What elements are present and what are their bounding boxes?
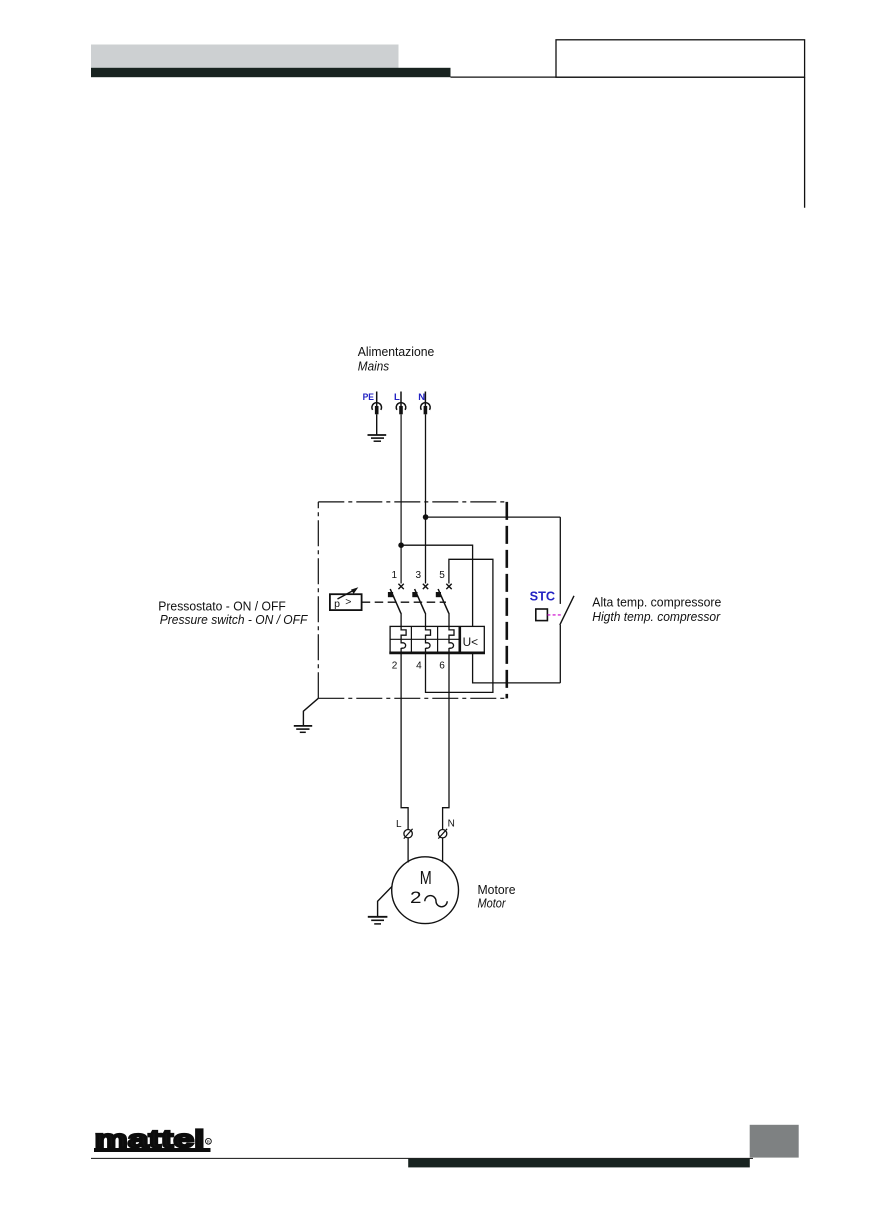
svg-text:2: 2 bbox=[392, 661, 398, 672]
ground motor bbox=[368, 917, 388, 924]
svg-text:3: 3 bbox=[416, 570, 422, 581]
contact pole 1 bbox=[388, 584, 404, 627]
contact pole 5 bbox=[436, 584, 452, 627]
wire N vertical bbox=[425, 414, 427, 583]
node on L wire bbox=[398, 542, 404, 548]
svg-text:N: N bbox=[418, 392, 425, 403]
enclosure ground lead bbox=[303, 698, 318, 725]
svg-text:6: 6 bbox=[439, 661, 445, 672]
STC linkage magenta dashed bbox=[547, 614, 561, 616]
header horizontal rule bbox=[451, 76, 805, 78]
footer dark bar bbox=[408, 1159, 750, 1168]
terminal N bbox=[421, 392, 431, 415]
ground enclosure bbox=[294, 726, 312, 732]
svg-text:4: 4 bbox=[416, 661, 422, 672]
STC thermal contact bbox=[560, 517, 574, 683]
label Alta temp bbox=[592, 596, 721, 625]
svg-text:5: 5 bbox=[439, 570, 445, 581]
motor ground lead bbox=[378, 886, 393, 916]
enclosure dash-dot box bbox=[318, 502, 507, 698]
pressure switch box p> bbox=[330, 587, 362, 610]
ground PE bbox=[368, 435, 387, 441]
terminal PE bbox=[372, 392, 382, 415]
contact pole 3 bbox=[412, 584, 428, 627]
svg-text:STC: STC bbox=[530, 590, 555, 604]
wire terminal2 to motor L bbox=[401, 653, 408, 830]
footer logo mattei bbox=[94, 1126, 211, 1154]
svg-text:Alta temp. compressore: Alta temp. compressore bbox=[592, 596, 721, 610]
node on N wire bbox=[423, 514, 429, 520]
wire terminal6 to motor N bbox=[443, 653, 449, 830]
wire L vertical bbox=[400, 414, 402, 583]
heater element pole 1 bbox=[401, 626, 406, 652]
motor sine wave bbox=[425, 896, 447, 907]
svg-text:Motor: Motor bbox=[478, 897, 507, 911]
svg-text:L: L bbox=[394, 392, 400, 403]
svg-text:U<: U< bbox=[463, 637, 479, 649]
wire L node to UV coil bbox=[401, 545, 473, 626]
svg-text:Pressure switch - ON / OFF: Pressure switch - ON / OFF bbox=[160, 612, 308, 627]
header dark bar bbox=[91, 68, 451, 77]
wire link terminal4 to contact5 bbox=[426, 559, 493, 692]
svg-text:Higth temp. compressor: Higth temp. compressor bbox=[592, 610, 721, 624]
motor M1 circle bbox=[392, 857, 459, 924]
wire UV coil bottom to STC bottom bbox=[473, 653, 561, 683]
label Alimentazione / Mains bbox=[358, 344, 435, 374]
overload relay block bbox=[389, 626, 485, 653]
svg-text:2: 2 bbox=[410, 888, 422, 907]
label Pressostato bbox=[158, 599, 308, 628]
svg-text:PE: PE bbox=[363, 392, 374, 403]
header box bbox=[556, 40, 805, 77]
right margin rule bbox=[804, 77, 806, 208]
footer gray square bbox=[750, 1125, 799, 1158]
svg-text:N: N bbox=[448, 819, 455, 830]
wire N node to STC bbox=[426, 516, 561, 518]
label Motore / Motor bbox=[478, 883, 516, 911]
svg-text:L: L bbox=[396, 819, 402, 830]
svg-text:1: 1 bbox=[392, 570, 398, 581]
svg-text:>: > bbox=[345, 596, 351, 608]
STC sensor box bbox=[536, 609, 548, 621]
terminal L bbox=[396, 392, 406, 415]
pressure switch linkage dashed bbox=[362, 601, 446, 603]
svg-text:p: p bbox=[334, 598, 340, 610]
enclosure right edge thick dashed bbox=[505, 502, 508, 699]
footer thin rule bbox=[91, 1157, 753, 1159]
wire PE to ground bbox=[376, 414, 378, 435]
header gray bar bbox=[91, 45, 399, 69]
motor terminal L bbox=[404, 829, 413, 863]
svg-text:M: M bbox=[420, 868, 432, 888]
svg-text:Mains: Mains bbox=[358, 359, 390, 374]
svg-text:Alimentazione: Alimentazione bbox=[358, 344, 435, 359]
motor terminal N bbox=[438, 829, 447, 862]
heater element pole 2 bbox=[426, 626, 431, 652]
svg-text:Motore: Motore bbox=[478, 883, 516, 897]
heater element pole 3 bbox=[449, 626, 454, 652]
